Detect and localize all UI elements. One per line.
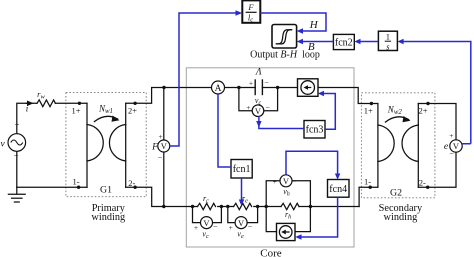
blue wire A to fcn1 [218, 94, 231, 167]
svg-text:−: − [292, 177, 297, 186]
node G2 1+ [370, 102, 373, 105]
fcn2 block [333, 34, 354, 49]
bottom bus segment 1 [218, 206, 234, 208]
v_h meter loop [266, 181, 280, 207]
G2 left arc [378, 125, 394, 162]
current arrow i [26, 102, 32, 104]
wire resistor to G1 [55, 102, 87, 104]
v_e meter (r_e) [235, 217, 247, 229]
blue wire F meter to F/lc [170, 13, 236, 146]
v_h meter [280, 175, 292, 187]
arrowhead into fcn4 [335, 174, 340, 180]
svg-text:−: − [264, 79, 269, 88]
blue wire v_h meter to fcn4 [286, 151, 338, 175]
node G2 2- [426, 186, 429, 189]
voltage source v [8, 134, 26, 152]
resistor r_c [198, 203, 216, 209]
wire G2 2+ to e branch [418, 104, 456, 140]
svg-text:F: F [247, 2, 254, 12]
F meter [158, 140, 170, 152]
fcn4 block [328, 180, 350, 198]
blue wire fcn3 to MMF source [324, 94, 336, 130]
G2 dashed box [361, 93, 435, 198]
svg-text:−: − [248, 223, 253, 232]
svg-text:+: + [158, 132, 162, 141]
node G1 1+ [78, 102, 81, 105]
node G2 2+ [426, 102, 429, 105]
blue wire 1/s to fcn2 [360, 41, 378, 43]
svg-text:V: V [161, 141, 168, 151]
svg-text:+: + [449, 131, 453, 140]
capacitor plate left [254, 80, 256, 95]
v_c meter (r_c) [201, 217, 213, 229]
svg-text:−: − [158, 154, 163, 163]
svg-text:Core: Core [260, 248, 282, 257]
e meter [450, 140, 462, 152]
G1 left bar [86, 103, 88, 187]
G2 coupling arrow [386, 117, 409, 122]
flux rate source block (bottom) [277, 223, 296, 240]
F meter branch [163, 88, 165, 141]
svg-text:V: V [283, 176, 290, 186]
B-H loop block [272, 25, 297, 49]
svg-text:A: A [215, 84, 222, 94]
core box (solid gray) [186, 68, 354, 247]
arrowhead into flux source [295, 234, 301, 239]
arrowhead v_c down [256, 121, 261, 128]
v_c loop (capacitor) [239, 88, 253, 111]
G2 right arc [402, 125, 418, 162]
arrowhead into H [297, 28, 303, 33]
svg-text:1+: 1+ [364, 106, 373, 116]
junction capacitor loop right [276, 86, 279, 89]
svg-text:B: B [308, 41, 315, 53]
wire MMF source to G2 [318, 88, 378, 104]
svg-text:+: + [273, 177, 277, 186]
blue wire F/lc to H input [260, 13, 326, 31]
ammeter A [212, 81, 225, 94]
svg-text:+: + [229, 223, 233, 232]
blue wire e meter to 1/s [403, 42, 471, 144]
ground [16, 187, 18, 194]
svg-text:V: V [238, 218, 245, 228]
wire capacitor to MMF source [262, 87, 297, 89]
blue wire fcn1 to bus [241, 178, 243, 200]
wire G1 2- to bottom bus [126, 187, 198, 206]
blue wire v_c meter to fcn3 [259, 116, 304, 128]
MMF source block (top) [298, 79, 319, 97]
arrowhead into 1/s [397, 39, 403, 44]
junction r_c loop left [191, 205, 194, 208]
svg-text:G1: G1 [100, 184, 112, 195]
svg-text:winding: winding [384, 212, 418, 223]
junction r_c loop right [220, 205, 223, 208]
node G1 2- [133, 186, 136, 189]
fcn3 block [304, 121, 325, 139]
wire bottom bus to G2 1- [359, 187, 378, 206]
svg-text:−: − [266, 103, 271, 112]
arrowhead into fcn2 [354, 39, 360, 44]
fcn1 block [231, 160, 252, 179]
arrowhead into B [297, 39, 303, 44]
resistor r_e [234, 203, 252, 209]
G1 left arc [87, 125, 103, 162]
svg-text:fcn3: fcn3 [306, 125, 324, 136]
svg-text:1-: 1- [364, 177, 371, 187]
arrowhead fcn1 to bus [239, 200, 244, 207]
wire source top [17, 103, 37, 133]
svg-text:+: + [15, 121, 20, 130]
node G1 2+ [133, 102, 136, 105]
junction r_e loop right [256, 205, 259, 208]
resistor r_w [37, 100, 55, 107]
G2 left bar [377, 104, 379, 188]
ammeter A wire [225, 87, 256, 89]
flux source loop [266, 207, 276, 232]
arrowhead into MMF source [318, 91, 324, 96]
svg-text:Λ: Λ [255, 68, 262, 78]
junction capacitor loop left [237, 86, 240, 89]
svg-text:winding: winding [91, 212, 125, 223]
G1 coupling arrow [95, 116, 118, 121]
bottom bus segment 3 [299, 206, 359, 208]
bottom bus segment 2 [254, 206, 281, 208]
svg-text:V: V [453, 141, 460, 151]
svg-text:1: 1 [386, 32, 390, 42]
wire e meter to 2- [418, 152, 456, 187]
junction F branch bottom [162, 205, 165, 208]
svg-text:G2: G2 [390, 188, 402, 199]
capacitor plate right [261, 80, 263, 95]
v_c meter loop (r_c) [193, 207, 202, 223]
svg-text:V: V [255, 106, 262, 116]
svg-text:+: + [194, 223, 198, 232]
v_e meter loop (r_e) [228, 207, 236, 223]
G2 right bar [417, 104, 419, 188]
svg-text:−: − [449, 150, 454, 159]
svg-text:−: − [13, 151, 18, 161]
junction r_h loop right [309, 205, 312, 208]
svg-text:fcn2: fcn2 [335, 38, 353, 49]
svg-text:fcn4: fcn4 [329, 184, 347, 195]
blue wire fcn4 to flux source [301, 197, 338, 237]
junction r_h loop left [265, 205, 268, 208]
svg-text:2+: 2+ [128, 106, 137, 116]
svg-text:+: + [246, 103, 250, 112]
G1 dashed box [66, 92, 146, 196]
arrowhead into F/lc [236, 10, 243, 16]
node G1 1- [77, 186, 80, 189]
node G2 1- [369, 186, 372, 189]
svg-text:1-: 1- [73, 176, 80, 186]
wire source bottom [17, 151, 87, 187]
svg-text:fcn1: fcn1 [233, 164, 251, 175]
svg-text:e: e [444, 142, 448, 152]
v_c meter (capacitor) [252, 105, 264, 117]
svg-text:1+: 1+ [72, 106, 81, 116]
svg-text:−: − [213, 223, 218, 232]
junction r_e loop left [226, 205, 229, 208]
svg-text:2+: 2+ [419, 106, 428, 116]
svg-text:H: H [309, 19, 319, 31]
svg-text:F: F [151, 143, 158, 153]
G1 right bar [125, 103, 127, 187]
G1 coupling arrowhead [112, 116, 120, 122]
blue wire fcn2 to B input [303, 41, 334, 43]
svg-text:+: + [249, 79, 253, 88]
wire G1 2+ to top bus [126, 88, 212, 104]
F/lc block [242, 0, 260, 22]
G2 coupling arrowhead [403, 116, 411, 122]
G1 right arc [109, 125, 125, 162]
svg-text:2-: 2- [419, 178, 426, 188]
svg-text:V: V [203, 218, 210, 228]
junction F branch top [162, 86, 165, 89]
1/s block [378, 31, 397, 50]
resistor r_h [281, 203, 299, 209]
